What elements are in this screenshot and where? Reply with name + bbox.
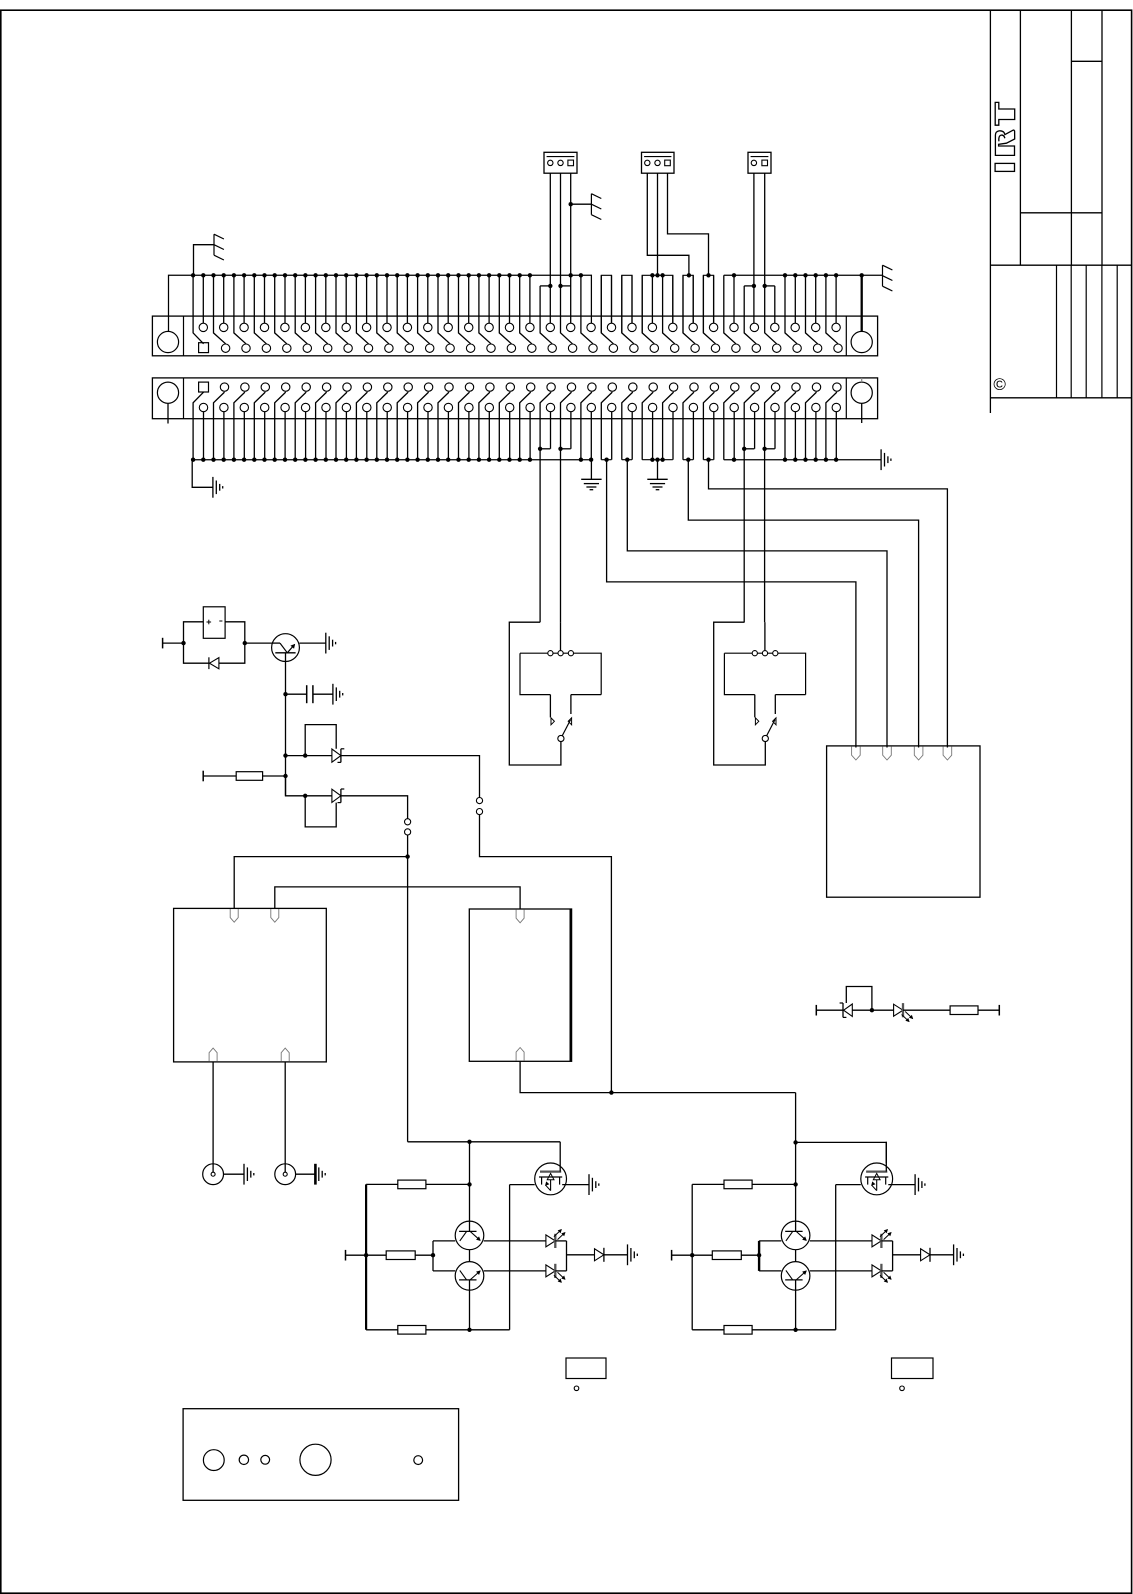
wire top k4 to pin c3 <box>234 275 246 344</box>
pin X2 a26 <box>710 383 718 391</box>
pin X2 c27 <box>730 403 738 411</box>
pin X2 c5 <box>281 403 289 411</box>
wire bottom k33 from pin c17 <box>529 412 531 460</box>
pin X1 c30 <box>793 344 801 352</box>
wire bottom k31 from pin c16 <box>509 412 511 460</box>
wire RB to base node <box>415 1254 433 1256</box>
wire bottom k54 from pin a28 <box>744 392 755 622</box>
wire top k22 to pin c12 <box>418 275 430 344</box>
pin X1 c21 <box>609 344 617 352</box>
pin X1 a9 <box>362 323 370 331</box>
wire bottom k41 from pin c21 <box>611 412 613 460</box>
connector X2 square pin a1 <box>199 382 209 392</box>
stub k34-k35 junction <box>540 285 550 287</box>
wire bottom k7 from pin c4 <box>264 412 266 460</box>
wire T1 emitter down <box>285 661 287 795</box>
pin X1 a23 <box>648 323 656 331</box>
wire contact pair2 down and right <box>480 815 612 1093</box>
module pin 3 <box>914 747 923 760</box>
wire bottom k9 from pin c5 <box>284 412 286 460</box>
wire terminal to rail <box>672 1254 713 1256</box>
switch movable contact <box>767 720 775 736</box>
terminal block input <box>345 1250 347 1261</box>
top bus segment A <box>169 275 592 331</box>
wire link to diode DA <box>567 1254 595 1256</box>
wire MOSFET drain <box>559 1142 561 1172</box>
wire bottom k18 from pin a10 <box>377 392 388 460</box>
wire switch center to coil circle <box>764 622 766 650</box>
pin X2 a19 <box>567 383 575 391</box>
pin X1 c5 <box>283 344 291 352</box>
MOSFET Q <box>861 1163 893 1195</box>
connector X2 body <box>152 378 877 419</box>
wire terminal to rail <box>346 1254 387 1256</box>
wire top k20 to pin c11 <box>397 275 409 344</box>
wire terminal to R1 <box>203 775 236 777</box>
pin X2 c7 <box>322 403 330 411</box>
wire QA collector chain <box>795 1142 797 1221</box>
pin X2 a13 <box>445 383 453 391</box>
jack socket 2 <box>275 1164 296 1185</box>
wire bottom k44 from pin a23 <box>642 392 653 460</box>
pin X2 a20 <box>588 383 596 391</box>
wire top k25 to pin a13 <box>447 275 449 323</box>
wire terminal to zener Z3 <box>816 1009 843 1011</box>
wire T1 collector to ground <box>299 642 325 644</box>
wire top k10 to pin c6 <box>295 275 307 344</box>
pin X2 c28 <box>750 403 758 411</box>
wire J1 pin3 down (k37) <box>570 173 572 323</box>
bottom bus left end to earth <box>192 460 213 488</box>
wire bottom k30 from pin a16 <box>499 392 510 460</box>
wire shield to X1 right mounting circle <box>861 275 863 331</box>
pin X2 a11 <box>404 383 412 391</box>
wire MOSFET drain <box>885 1142 887 1172</box>
transistor T1 <box>272 634 300 662</box>
wire bottom k57 from pin c29 <box>774 412 776 449</box>
pin X1 a16 <box>505 323 513 331</box>
wire base to QB <box>759 1270 781 1272</box>
wire X2 right shield stub above <box>861 378 863 382</box>
wire bottom k35 from pin c18 <box>550 412 552 449</box>
wire top k47 to pin a24 <box>672 275 674 323</box>
battery box B1 <box>203 607 225 639</box>
pin X2 c17 <box>526 403 534 411</box>
wire top k32 to pin c17 <box>520 275 532 344</box>
wire QA-QB link <box>795 1250 797 1262</box>
pin X1 a21 <box>607 323 615 331</box>
wire bottom k29 from pin c15 <box>488 412 490 460</box>
bottom bus dots k38 k39 <box>579 458 583 462</box>
wire top k17 to pin a9 <box>366 275 368 323</box>
top bus jumper E1 (k50-k51) <box>703 275 713 333</box>
resistor RA <box>724 1180 752 1189</box>
wire MOSFET source to ground <box>888 1184 915 1186</box>
switch common circle <box>762 735 768 741</box>
wire top k1 to pin a1 <box>202 275 204 323</box>
wire base to QA <box>433 1240 455 1242</box>
wire top k46 to pin c24 <box>663 275 675 344</box>
wire base node vertical <box>432 1241 434 1271</box>
dots on segment G <box>732 273 736 277</box>
bottom wire with resistor RC <box>366 1329 398 1331</box>
feed wire from relay junction <box>407 857 409 1142</box>
wire bottom k50 from pin a26 <box>703 392 714 460</box>
LED A <box>546 1230 565 1248</box>
pin X1 c27 <box>732 344 740 352</box>
wire J1 pin1 down (k35) <box>549 173 551 323</box>
wire feed to relay K1 pin1 <box>234 857 407 909</box>
dot on jumper E1 (J2 pin3 jog) <box>706 273 710 277</box>
wire bottom k37 from pin c19 <box>570 412 572 449</box>
feed wire right block <box>796 1093 887 1164</box>
wire bottom k17 from pin c9 <box>366 412 368 460</box>
wire top k14 to pin c8 <box>336 275 348 344</box>
wire RA to main vertical <box>752 1183 796 1185</box>
module pin 1 <box>852 747 861 760</box>
wire top k19 to pin a10 <box>386 275 388 323</box>
pin X1 a24 <box>669 323 677 331</box>
terminal chain right <box>998 1005 1000 1016</box>
title block column line 1 <box>989 10 991 413</box>
IRT logo letter I (rotated) <box>995 163 1014 171</box>
pin X2 a12 <box>424 383 432 391</box>
pin X1 a27 <box>730 323 738 331</box>
wire bottom k1 from pin c1 <box>203 412 205 460</box>
wire to zener Z1 <box>286 755 332 757</box>
title block lower columns <box>1056 265 1058 398</box>
wire bottom k39 from pin c20 <box>590 412 592 460</box>
wire bottom k46 from pin a24 <box>663 392 674 460</box>
junction dot zener upper <box>283 753 287 757</box>
pin X1 c11 <box>405 344 413 352</box>
pin X2 a17 <box>527 383 535 391</box>
pin X1 a30 <box>791 323 799 331</box>
pin X1 c24 <box>671 344 679 352</box>
loop over zener Z1 <box>305 725 336 756</box>
pin X1 a6 <box>301 323 309 331</box>
earth ground DA <box>954 1244 964 1265</box>
wire bottom k11 from pin c6 <box>305 412 307 460</box>
wire top k60 to pin c31 <box>806 275 818 344</box>
module box <box>827 746 980 897</box>
stub bottom k34-k35 <box>540 448 550 450</box>
wire LED to resistor R chain <box>903 1009 950 1011</box>
relay K1 box <box>174 908 327 1062</box>
title block cell divider lower <box>1020 212 1102 214</box>
wire QA-QB link <box>469 1250 471 1262</box>
wire jack1 to ground <box>224 1173 245 1175</box>
LED B <box>546 1264 565 1282</box>
diode DA <box>921 1248 930 1262</box>
wire QB to LED B <box>810 1270 872 1272</box>
pin X1 c4 <box>262 344 270 352</box>
wire top k15 to pin a8 <box>345 275 347 323</box>
connector J2 (3-pin) <box>642 152 675 173</box>
pin X1 c20 <box>589 344 597 352</box>
pin X1 c15 <box>487 344 495 352</box>
pin X1 a1 <box>199 323 207 331</box>
pin X1 c9 <box>364 344 372 352</box>
resistor RB <box>712 1251 741 1260</box>
pin X2 c25 <box>689 403 697 411</box>
pin X2 c3 <box>240 403 248 411</box>
wire bottom k2 from pin a2 <box>214 392 225 460</box>
index hole bottom left <box>574 1386 579 1391</box>
bottom bus segment G <box>724 459 881 461</box>
pin X2 c26 <box>710 403 718 411</box>
resistor RC <box>398 1326 426 1335</box>
wire QB emitter down <box>795 1290 797 1330</box>
pin X2 a18 <box>547 383 555 391</box>
wire Z3 to junction <box>852 1009 893 1011</box>
bottom bus main segment <box>192 459 591 461</box>
wire top k51 to pin a26 <box>713 275 715 323</box>
wire bottom k49 from pin c25 <box>692 412 694 460</box>
wire X2 shield stub <box>167 403 169 423</box>
chassis ground at J1 <box>591 194 601 220</box>
contact pair 2 <box>476 798 482 804</box>
pin X1 c8 <box>344 344 352 352</box>
pin X1 a7 <box>322 323 330 331</box>
relay K2 pin bottom <box>516 1048 524 1061</box>
wire to module pin 2 <box>627 460 887 748</box>
wire top k62 to pin c32 <box>826 275 838 344</box>
wire Z2 to contact pair 1 <box>341 796 408 819</box>
top bus jumper D (k48-k49) <box>683 275 693 333</box>
loop under zener Z2 <box>305 796 336 827</box>
pin X2 c22 <box>628 403 636 411</box>
switch box <box>520 653 601 694</box>
index hole bottom right <box>900 1386 905 1391</box>
terminal left input <box>162 638 164 649</box>
pin X1 c26 <box>711 344 719 352</box>
junction dot Z1 loop <box>303 753 307 757</box>
earth ground MOSFET <box>915 1174 925 1195</box>
pin X1 c10 <box>385 344 393 352</box>
junction dot RA right <box>467 1182 471 1186</box>
wire J2 pin1 jog <box>647 173 689 275</box>
wire rail top to resistor RA <box>366 1183 398 1185</box>
pin X1 a5 <box>281 323 289 331</box>
wire top k45 to pin a23 <box>651 275 653 323</box>
panel hole 1 <box>203 1450 224 1471</box>
wire top k24 to pin c13 <box>438 275 450 344</box>
wire k57 to pin a28 <box>774 286 776 323</box>
pin X1 a29 <box>771 323 779 331</box>
pin X1 a4 <box>260 323 268 331</box>
wire J1 pin3 to chassis <box>571 203 592 205</box>
pin X1 a11 <box>403 323 411 331</box>
terminal block input <box>671 1250 673 1261</box>
top bus jumper B2 (k42-k43) <box>622 275 632 333</box>
wire bottom k13 from pin c7 <box>325 412 327 460</box>
wire top k28 to pin c15 <box>479 275 491 344</box>
pin X2 a2 <box>220 383 228 391</box>
wire k54 to pin c27 <box>744 286 756 344</box>
junction dot chain <box>870 1008 874 1012</box>
wire top k43 to pin a22 <box>631 275 633 323</box>
wire bottom k4 from pin a3 <box>234 392 245 460</box>
wire bottom k48 from pin a25 <box>683 392 694 460</box>
pin X1 a19 <box>567 323 575 331</box>
pin X1 a26 <box>709 323 717 331</box>
pin X1 a8 <box>342 323 350 331</box>
junction dot capacitor branch <box>283 692 287 696</box>
pin X1 a2 <box>220 323 228 331</box>
resistor R chain <box>950 1006 978 1015</box>
relay K1 pin bottom1 <box>209 1048 217 1061</box>
wire bottom k5 from pin c3 <box>243 412 245 460</box>
pin X2 c30 <box>791 403 799 411</box>
earth ground at T1 <box>326 633 336 654</box>
relay K1 pin top1 <box>230 909 238 922</box>
wire RB to base node <box>741 1254 759 1256</box>
wire top k3 to pin a2 <box>223 275 225 323</box>
wire top k21 to pin a11 <box>406 275 408 323</box>
connector X2 right mounting circle <box>851 382 872 403</box>
wire top k2 to pin c2 <box>214 275 226 344</box>
connector X1 left divider <box>183 316 185 356</box>
label box bottom left <box>566 1358 606 1379</box>
wire QB emitter down <box>469 1290 471 1330</box>
IRT logo letter R (rotated) <box>995 130 1014 155</box>
wire bottom k52 from pin a27 <box>724 392 735 460</box>
title block horizontal divider <box>990 264 1131 266</box>
wire rail vertical <box>365 1184 367 1329</box>
wire rail vertical <box>691 1184 693 1329</box>
chassis ground top-left <box>214 234 224 260</box>
LED A <box>872 1230 891 1248</box>
wire bottom k16 from pin a9 <box>356 392 367 460</box>
pin X1 c12 <box>426 344 434 352</box>
wire k34 to pin c17 <box>540 286 552 344</box>
LED output link vertical <box>881 1240 892 1242</box>
bottom bus segment k44-k47 <box>642 459 673 461</box>
wire to earth ground below bus right <box>657 460 659 480</box>
front panel outline <box>183 1409 459 1501</box>
wire top k61 to pin a31 <box>815 275 817 323</box>
wire QA to LED A <box>810 1240 872 1242</box>
relay K2 pin top <box>516 910 524 923</box>
transistor QA <box>455 1221 484 1250</box>
pin X1 a15 <box>485 323 493 331</box>
pin X2 a4 <box>261 383 269 391</box>
bottom bus jumper k40-k41 <box>601 459 611 461</box>
wire bottom k26 from pin a14 <box>459 392 470 460</box>
wire top k48 to pin c25 <box>683 275 695 344</box>
svg-text:©: © <box>993 375 1006 394</box>
stub bottom k36-k37 <box>561 448 571 450</box>
wire bottom k34 from pin a18 <box>540 392 551 622</box>
transistor QB <box>455 1262 484 1291</box>
connector X2 left divider <box>183 378 185 419</box>
junction dot bottom <box>793 1328 797 1332</box>
wire bottom k56 from pin a29 <box>765 392 776 622</box>
connector X1 square pin c1 <box>199 343 209 353</box>
wire top k18 to pin c10 <box>377 275 389 344</box>
pin X2 c13 <box>444 403 452 411</box>
wire top k5 to pin a3 <box>243 275 245 323</box>
junction dot Z2 loop <box>303 794 307 798</box>
relay K2 box <box>469 909 571 1061</box>
wire bottom k36 from pin a19 <box>561 392 572 622</box>
pin X1 a17 <box>526 323 534 331</box>
junction dot resistor node <box>283 774 287 778</box>
pin X2 a22 <box>629 383 637 391</box>
pin X1 a32 <box>832 323 840 331</box>
wire contact pair1 to junction <box>407 835 409 857</box>
pin X1 a18 <box>546 323 554 331</box>
resistor RC <box>724 1326 752 1335</box>
wire jack2 to ground <box>296 1173 316 1175</box>
pin X1 c31 <box>813 344 821 352</box>
title block bottom line <box>990 397 1131 399</box>
dot on jumper D (J2 pin1 jog) <box>687 273 691 277</box>
pin X2 c31 <box>812 403 820 411</box>
wire K1 bottom2 to jack <box>284 1062 286 1172</box>
junction dot RA right <box>793 1182 797 1186</box>
wire bottom k6 from pin a4 <box>254 392 265 460</box>
contact pair 1 <box>405 819 411 825</box>
wire bottom k28 from pin a15 <box>479 392 490 460</box>
wire bottom k19 from pin c10 <box>386 412 388 460</box>
wire top k33 to pin a17 <box>529 275 531 323</box>
jack socket 1 <box>203 1164 224 1185</box>
switch contact leg left <box>549 695 551 718</box>
resistor RA <box>398 1180 426 1189</box>
node dot right <box>243 641 247 645</box>
wire top k50 to pin c26 <box>703 275 715 344</box>
panel hole 2 <box>239 1455 248 1464</box>
feed wire horizontal <box>408 1141 561 1143</box>
wire bottom k20 from pin a11 <box>397 392 408 460</box>
title block column line 3 <box>1070 10 1072 265</box>
wire link to diode DA <box>893 1254 921 1256</box>
wire top k40 to pin c21 <box>601 275 613 344</box>
wire bottom k38 from pin a20 <box>581 392 592 460</box>
wire top k42 to pin c22 <box>622 275 634 344</box>
diode D1 branch lower <box>184 643 209 663</box>
wire bottom k61 from pin c31 <box>815 412 817 460</box>
module pin 2 <box>883 747 892 760</box>
wire K1 bottom1 to jack <box>212 1062 214 1172</box>
resistor R1 <box>236 772 262 781</box>
wire J3 pin1 down (k55) <box>753 173 755 323</box>
wire resistor to terminal right <box>978 1009 999 1011</box>
junction dot feed right <box>793 1140 797 1144</box>
pin X1 c22 <box>630 344 638 352</box>
junction dot feed right block <box>609 1090 613 1094</box>
wire bottom k45 from pin c23 <box>652 412 654 460</box>
pin X2 c2 <box>220 403 228 411</box>
wire switch center to coil circle <box>560 622 562 650</box>
wire MOSFET gate <box>836 1184 861 1186</box>
pin X2 a10 <box>384 383 392 391</box>
wire top k23 to pin a12 <box>427 275 429 323</box>
bottom bus jumper k48-k49 <box>683 459 693 461</box>
pin X1 c16 <box>507 344 515 352</box>
wire bottom k14 from pin a8 <box>336 392 347 460</box>
wire bottom k22 from pin a12 <box>418 392 429 460</box>
wire J1 pin2 down (k36) <box>561 173 573 344</box>
transistor QB <box>781 1262 810 1291</box>
wire battery right to node <box>225 622 245 643</box>
switch contact leg left <box>754 695 756 718</box>
pin X2 c10 <box>383 403 391 411</box>
pin X2 a29 <box>771 383 779 391</box>
bottom bus jumper k50-k51 <box>703 459 713 461</box>
